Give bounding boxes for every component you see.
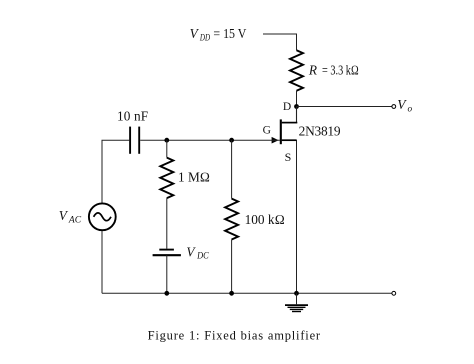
svg-text:DD: DD	[199, 33, 210, 43]
wire bottom rail	[102, 292, 392, 294]
transistor Q1 2N3819 drain lead	[296, 107, 298, 124]
capacitor C1 plates	[130, 127, 139, 154]
source VAC circle	[89, 203, 116, 230]
svg-text:DC: DC	[196, 252, 209, 262]
node junction dot at 1M top	[164, 138, 169, 143]
svg-text:= 3.3 kΩ: = 3.3 kΩ	[322, 63, 359, 78]
wire 100k top	[231, 140, 233, 198]
svg-text:Figure 1: Fixed bias amplifier: Figure 1: Fixed bias amplifier	[148, 328, 321, 342]
wire R to node D	[296, 91, 298, 107]
svg-text:= 15 V: = 15 V	[213, 26, 246, 41]
wire VDD to R	[263, 34, 297, 50]
svg-text:1 MΩ: 1 MΩ	[178, 169, 210, 184]
wire 1M top	[166, 140, 168, 157]
svg-text:G: G	[263, 125, 271, 137]
svg-text:2N3819: 2N3819	[299, 123, 341, 138]
node junction dot source bottom	[294, 291, 299, 296]
node D junction dot	[294, 104, 299, 109]
wire 1M to battery	[166, 198, 168, 249]
battery VDC	[153, 250, 181, 256]
transistor Q1 gate arrow	[272, 137, 279, 144]
svg-text:D: D	[283, 101, 291, 113]
wire 100k to rail	[231, 240, 233, 294]
wire capacitor to gate	[140, 139, 280, 141]
node junction dot 1M bottom	[164, 291, 169, 296]
label Vo	[397, 97, 412, 114]
label R = 3.3 kOhm	[308, 63, 359, 78]
label VAC	[59, 208, 82, 225]
transistor Q1 source lead	[282, 140, 297, 293]
node junction dot at 100k top	[229, 138, 234, 143]
svg-text:S: S	[285, 150, 292, 164]
label VDD = 15 V	[190, 26, 247, 43]
svg-text:10 nF: 10 nF	[117, 109, 148, 124]
wire D to Vo terminal	[297, 106, 392, 108]
source VAC sine wave	[94, 213, 111, 221]
node junction dot 100k bottom	[229, 291, 234, 296]
ground	[285, 293, 308, 311]
svg-text:100 kΩ: 100 kΩ	[245, 212, 285, 227]
terminal Vo open circle	[392, 105, 396, 109]
resistor 100k	[225, 199, 238, 240]
resistor 1M	[160, 158, 173, 199]
svg-text:o: o	[408, 105, 413, 115]
resistor R	[290, 50, 303, 91]
wire gate rail: left corner to capacitor	[102, 140, 129, 203]
svg-text:R: R	[308, 63, 317, 78]
wire VAC bottom to rail	[101, 230, 103, 293]
terminal bottom right open circle	[392, 291, 396, 295]
wire battery to rail	[166, 255, 168, 293]
transistor Q1 channel bar	[280, 119, 282, 144]
svg-text:AC: AC	[68, 215, 82, 225]
label VDC	[186, 244, 209, 261]
